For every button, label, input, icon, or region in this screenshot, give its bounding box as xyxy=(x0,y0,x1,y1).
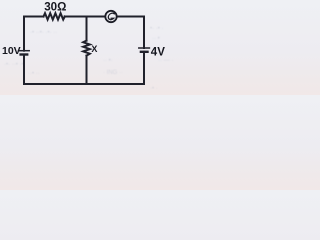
svg-text:·• ··•· ·•· ··: ·• ··•· ·•· ·· xyxy=(30,30,57,36)
svg-text:·· •: ·· • xyxy=(152,36,160,42)
svg-text:·•· ··• ·•: ·•· ··• ·• xyxy=(4,62,24,68)
svg-text:•· ·• ·: •· ·• · xyxy=(150,26,164,32)
svg-text:··• ··: ··• ·· xyxy=(28,71,40,77)
svg-text:·· — ·: ·· — · xyxy=(158,58,173,64)
svg-text:30Ω: 30Ω xyxy=(44,0,66,13)
svg-text:4V: 4V xyxy=(151,47,165,59)
svg-text:·• ·: ·• · xyxy=(150,86,158,92)
svg-text:10V: 10V xyxy=(2,45,21,57)
svg-text:·· •·: ·· •· xyxy=(103,58,113,64)
svg-text:· ING ··: · ING ·· xyxy=(103,70,123,76)
svg-text:X: X xyxy=(91,44,97,54)
